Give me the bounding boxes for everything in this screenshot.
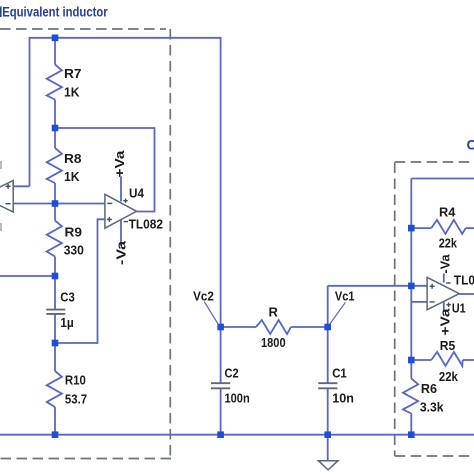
wire R6 bottom lead [410,414,412,435]
svg-text:C: C [467,137,474,153]
wire U4 + input loop [55,219,105,343]
svg-text:+Va: +Va [438,308,453,336]
node R7/R8 feedback [52,125,59,132]
capacitor C1 plates [318,383,337,388]
wire R left lead [221,326,256,328]
ground lead [327,435,329,461]
resistor R7 zigzag [47,65,62,100]
svg-text:R7: R7 [64,66,82,81]
node bottom rail C2 [217,431,224,438]
U4 power pin bottom [120,220,122,246]
dashed box: equivalent inductor block [0,29,171,459]
wire top rail with left drop to opamp + input [30,38,221,327]
node top rail / R7 [52,35,59,42]
svg-text:330: 330 [64,243,84,258]
resistor R5 zigzag [431,352,462,366]
svg-text:R6: R6 [421,381,437,396]
wire R10 bottom lead [54,407,56,435]
U1 power pin top [443,274,445,283]
wire R4 right lead [466,227,474,229]
svg-text:C2: C2 [225,365,239,380]
svg-text:1800: 1800 [261,335,286,350]
svg-text:+Va: +Va [112,150,127,178]
resistor R6 zigzag [403,379,418,414]
wire U4 feedback top [55,128,155,212]
svg-text:TL082: TL082 [129,217,163,232]
power pin plus mark [123,200,127,202]
capacitor C2 plates [211,383,230,388]
wire R5 left lead [411,359,431,361]
ground [318,461,338,470]
resistor R8 zigzag [47,148,62,183]
U4 power pin top [120,177,122,202]
svg-text:C1: C1 [332,365,347,380]
node bottom rail left [52,431,59,438]
svg-text:R4: R4 [439,204,456,219]
svg-text:R9: R9 [65,225,83,240]
wire R7-R8 leads [54,100,56,149]
wire R7 top lead [54,38,56,65]
wire left output line y276 [0,275,55,277]
minus input mark [430,301,435,303]
svg-text:C3: C3 [60,290,75,305]
svg-text:1K: 1K [64,85,80,100]
svg-text:22k: 22k [439,369,459,384]
resistor R10 zigzag [47,371,62,407]
capacitor C3 plates [46,310,65,314]
wire R8-R9 leads [54,183,56,221]
svg-text:R8: R8 [64,151,82,166]
op-amp U1 [427,277,459,309]
junction nodes [52,35,415,439]
wire left opamp + input [13,185,29,187]
wire C2 bottom lead [220,389,222,435]
left edge cropped label fragments [0,161,2,231]
node bottom rail right [408,431,415,438]
plus input mark [107,218,112,220]
power pin plus mark [446,304,450,306]
resistor R zigzag [256,320,291,334]
power pin minus mark [124,221,128,223]
svg-text:53.7: 53.7 [65,392,87,407]
svg-text:U1: U1 [452,300,466,315]
node R4 [408,225,415,232]
callout line Vc1 [330,302,346,324]
wire U1 output [459,293,474,295]
svg-text:22k: 22k [439,235,458,250]
resistor R4 zigzag [431,220,466,234]
op-amp U4 [105,194,137,228]
node Vc1 [324,324,331,331]
node bottom rail C1 [324,431,331,438]
svg-text:TL082: TL082 [454,273,474,288]
wire inverting line y203.5 [13,203,105,205]
wire right feedback column [410,179,412,379]
svg-text:3.3k: 3.3k [420,400,444,415]
svg-text:Vc1: Vc1 [335,288,355,303]
svg-text:100n: 100n [225,391,250,406]
svg-text:Vc2: Vc2 [193,288,214,303]
dashed box: right block [395,162,474,456]
power pin minus mark [446,282,450,284]
svg-text:1µ: 1µ [60,315,74,330]
node U1 + input [408,283,415,290]
svg-text:Equivalent inductor: Equivalent inductor [2,4,108,20]
wire C1 top lead / Vc1 riser [327,286,329,383]
plus input mark [430,285,435,287]
node R9/C3 [52,273,59,280]
svg-text:R: R [269,305,279,320]
wire R right lead [291,326,328,328]
svg-text:-Va: -Va [114,240,129,265]
resistor R9 zigzag [47,221,62,257]
minus input mark [6,203,11,205]
svg-text:R5: R5 [440,338,456,353]
svg-text:U4: U4 [129,186,145,201]
wire C1 bottom lead [327,389,329,435]
wire C2 top lead [220,327,222,383]
wire U1 - input [411,301,427,303]
op-amp U3 (left, cut off) [0,181,13,213]
node inverting [52,200,59,207]
minus input mark [107,202,112,204]
wire C3-R10 leads [54,314,56,371]
title: Equivalent inductor [0,4,108,20]
svg-text:-Va: -Va [438,254,453,274]
node C3/R10 [52,340,59,347]
svg-text:R10: R10 [65,373,86,388]
wire Vc1 to U1 + input [328,285,427,287]
wire R5 right lead [463,359,474,361]
node Vc2 [217,324,224,331]
wire R9-C3 leads [54,257,56,310]
svg-text:1K: 1K [64,169,80,184]
U1 power pin bottom [443,302,445,312]
wire right top feedback [411,178,474,180]
bottom rail [0,434,474,436]
callout line Vc2 [204,302,219,326]
node R5/R6 [408,357,415,364]
svg-text:10n: 10n [332,391,354,406]
plus input mark [6,185,11,187]
wire R4 left lead [411,227,431,229]
